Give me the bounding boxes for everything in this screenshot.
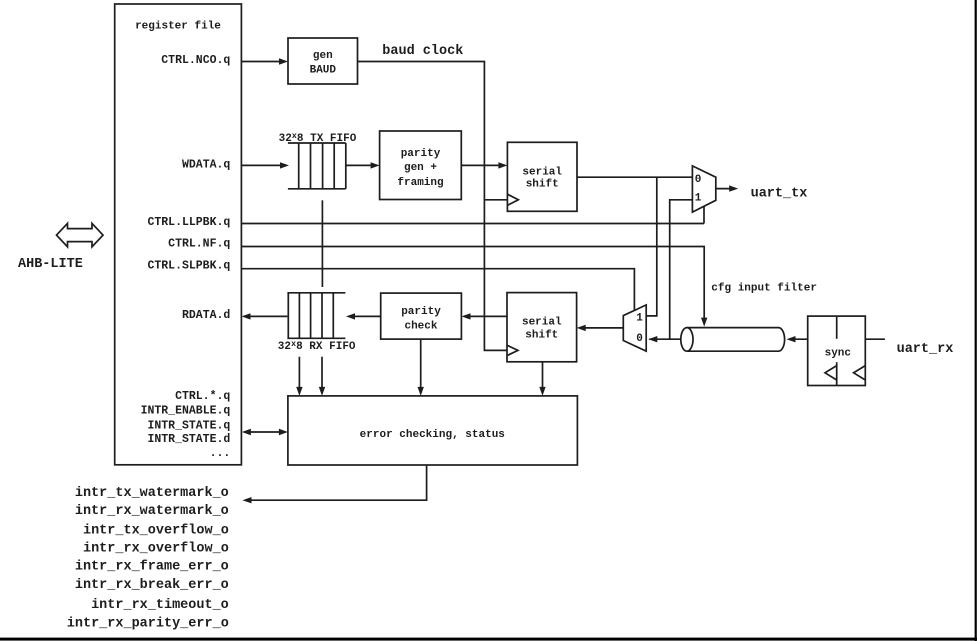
svg-text:CTRL.LLPBK.q: CTRL.LLPBK.q (147, 216, 230, 229)
TX FIFO (288, 143, 346, 189)
cfg input filter cylinder left ellipse (681, 328, 693, 352)
svg-text:WDATA.q: WDATA.q (182, 158, 230, 171)
svg-text:gen +: gen + (404, 162, 437, 174)
svg-text:CTRL.NCO.q: CTRL.NCO.q (161, 54, 230, 67)
wire parity gen to TX serial shift (461, 164, 504, 166)
wire filter out to RX mux0 (649, 338, 681, 340)
wire parity check down to error box (420, 339, 422, 393)
register file box (115, 4, 242, 465)
wire RDATA.d from RX FIFO (245, 315, 288, 317)
TX serial shift box (507, 142, 577, 211)
svg-text:check: check (404, 320, 437, 332)
svg-text:cfg input filter: cfg input filter (711, 282, 817, 294)
svg-text:AHB-LITE: AHB-LITE (18, 257, 83, 272)
svg-text:baud clock: baud clock (382, 44, 463, 59)
svg-text:intr_rx_timeout_o: intr_rx_timeout_o (91, 598, 229, 613)
wire RX FIFO down to error box 2 (321, 357, 323, 393)
svg-text:intr_rx_break_err_o: intr_rx_break_err_o (75, 578, 229, 593)
svg-text:shift: shift (526, 179, 559, 191)
svg-text:parity: parity (401, 306, 441, 318)
RX serial shift box (507, 293, 577, 362)
wire CTRL.LLPBK.q (241, 223, 704, 225)
svg-text:sync: sync (825, 348, 851, 360)
RX FIFO (287, 293, 345, 339)
svg-text:INTR_STATE.d: INTR_STATE.d (147, 433, 230, 446)
wire baud clock branch to TX serial shift clock (484, 199, 506, 201)
svg-text:error checking, status: error checking, status (360, 429, 505, 441)
svg-text:32x8 TX FIFO: 32x8 TX FIFO (279, 131, 357, 145)
svg-text:framing: framing (397, 177, 443, 189)
TX serial shift clock pin (507, 194, 518, 205)
wire TX FIFO to parity gen (346, 164, 377, 166)
wire TX mux1 input from filtered rx (670, 200, 693, 339)
svg-text:serial: serial (522, 166, 562, 178)
svg-text:uart_tx: uart_tx (751, 186, 808, 201)
wire TX mux select from CTRL.LLPBK.q (703, 206, 705, 223)
error checking status box (288, 396, 578, 465)
sync left FF clock pin (825, 366, 837, 380)
wire parity check to RX FIFO (349, 315, 381, 317)
gen BAUD box (288, 38, 358, 84)
svg-text:CTRL.NF.q: CTRL.NF.q (168, 238, 230, 251)
svg-text:intr_rx_watermark_o: intr_rx_watermark_o (75, 504, 229, 519)
wire RX mux out to serial shift (580, 327, 624, 329)
wire CTRL.NF.q (241, 247, 704, 324)
wire CTRL.NCO.q to gen BAUD (241, 61, 285, 63)
wire WDATA.q to TX FIFO (241, 164, 286, 166)
svg-text:0: 0 (636, 333, 643, 345)
svg-text:intr_rx_frame_err_o: intr_rx_frame_err_o (75, 560, 229, 575)
svg-text:parity: parity (401, 148, 441, 160)
svg-text:INTR_ENABLE.q: INTR_ENABLE.q (141, 405, 231, 418)
frame border bottom (0, 638, 977, 641)
svg-text:1: 1 (636, 312, 643, 324)
wire baud clock net (358, 62, 507, 351)
wire RX FIFO down to error box 1 (298, 357, 300, 393)
svg-text:intr_tx_watermark_o: intr_tx_watermark_o (75, 486, 229, 501)
wire TX data loopback down to RX mux1 (647, 177, 657, 316)
parity gen + framing box (380, 131, 462, 200)
svg-text:gen: gen (313, 50, 333, 62)
svg-text:shift: shift (525, 330, 558, 342)
wire uart_rx to sync (865, 338, 885, 340)
RX serial shift clock pin (507, 345, 518, 355)
wire register file to error box bidirectional (245, 431, 285, 433)
wire intr outputs from error box (246, 465, 427, 500)
svg-text:CTRL.SLPBK.q: CTRL.SLPBK.q (147, 259, 230, 272)
TX output mux (692, 166, 715, 212)
svg-text:BAUD: BAUD (310, 64, 337, 76)
svg-text:register file: register file (135, 21, 221, 33)
svg-text:1: 1 (695, 193, 702, 205)
sync box (808, 316, 866, 385)
wire TX serial shift out to mux0 (577, 176, 692, 178)
sync box divider lower (836, 362, 838, 385)
wire TX FIFO level stub (321, 200, 323, 287)
sync right FF clock pin (854, 366, 866, 380)
svg-text:serial: serial (522, 317, 562, 329)
wire CTRL.SLPBK.q to RX mux select (241, 269, 634, 311)
svg-text:intr_rx_overflow_o: intr_rx_overflow_o (83, 541, 229, 556)
svg-text:INTR_STATE.q: INTR_STATE.q (147, 419, 230, 432)
svg-text:CTRL.*.q: CTRL.*.q (175, 390, 230, 403)
svg-text:RDATA.d: RDATA.d (182, 309, 230, 322)
parity check box (381, 293, 462, 339)
svg-text:uart_rx: uart_rx (897, 342, 954, 357)
wire RX serial shift to parity check (465, 315, 508, 317)
svg-text:...: ... (210, 447, 231, 460)
RX input mux (623, 305, 646, 351)
frame border right (975, 0, 977, 641)
wire TX mux out to uart_tx (716, 188, 735, 190)
sync box divider upper (836, 316, 838, 339)
wire sync out to filter (790, 338, 808, 340)
svg-text:32x8 RX FIFO: 32x8 RX FIFO (278, 339, 356, 353)
wire RX serial shift down to error box (542, 362, 544, 393)
AHB-LITE bus double arrow (57, 223, 104, 246)
svg-text:0: 0 (695, 174, 702, 186)
svg-text:intr_tx_overflow_o: intr_tx_overflow_o (83, 523, 229, 538)
svg-text:intr_rx_parity_err_o: intr_rx_parity_err_o (67, 616, 229, 631)
cfg input filter cylinder (687, 328, 785, 352)
